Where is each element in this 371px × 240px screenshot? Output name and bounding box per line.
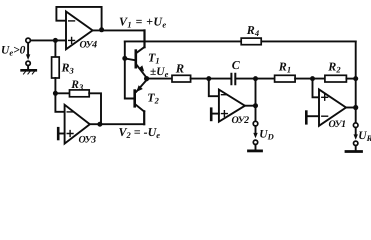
ground U2 plus input xyxy=(212,113,219,115)
wire R4 row xyxy=(125,40,356,42)
op-amp U2 minus pin xyxy=(222,94,228,96)
node R3h junction xyxy=(53,91,58,96)
svg-text:UR: UR xyxy=(358,130,371,143)
svg-text:R1: R1 xyxy=(278,59,291,74)
node R2 right xyxy=(353,76,358,81)
svg-text:R3: R3 xyxy=(61,61,75,76)
ground U3 plus input xyxy=(59,133,64,135)
op-amp U3 xyxy=(65,105,90,144)
op-amp U4 feedback wire xyxy=(56,7,101,30)
svg-text:Ue>0: Ue>0 xyxy=(1,45,26,58)
node U4 output xyxy=(99,27,104,32)
wire R3h to U3 output xyxy=(89,93,101,124)
wire U1 non-inverting input xyxy=(313,79,320,98)
wire right bus xyxy=(355,41,357,123)
resistor R3 vertical xyxy=(52,57,60,78)
svg-text:R: R xyxy=(175,62,184,76)
node base T1 xyxy=(122,56,127,61)
op-amp U1 xyxy=(319,89,346,125)
op-amp U4 minus pin xyxy=(69,20,75,22)
wire input to U4 xyxy=(30,39,66,41)
resistor R3 horizontal feedback xyxy=(55,92,69,94)
svg-text:R2: R2 xyxy=(327,59,341,74)
ground U1 minus input xyxy=(308,115,320,117)
transistor Q1 xyxy=(136,47,146,76)
resistor R1 xyxy=(275,75,296,82)
svg-text:±Ue: ±Ue xyxy=(150,66,169,79)
terminal input Ue xyxy=(26,38,31,43)
ground input xyxy=(27,66,29,70)
svg-text:ОУ3: ОУ3 xyxy=(79,135,97,146)
wire base bus from R4 xyxy=(125,41,134,98)
op-amp U2 xyxy=(219,90,245,122)
svg-text:V2 = -Ue: V2 = -Ue xyxy=(119,125,161,140)
node U3 output xyxy=(97,122,102,127)
resistor R2 xyxy=(325,75,347,82)
wire U1 output xyxy=(346,107,356,109)
node emitter Ue xyxy=(144,76,149,81)
wire U2 inverting input xyxy=(209,79,219,97)
node U2 output xyxy=(253,103,258,108)
resistor R xyxy=(172,75,191,82)
resistor R4 xyxy=(241,38,261,45)
terminal UR xyxy=(353,123,358,128)
svg-text:C: C xyxy=(232,58,241,72)
op-amp U3 plus pin xyxy=(67,131,73,137)
node U2 output top xyxy=(253,76,258,81)
wire U3 output V2 xyxy=(90,123,144,125)
op-amp U4 xyxy=(66,12,93,50)
op-amp U2 plus pin xyxy=(222,111,228,117)
ground UR xyxy=(355,146,357,151)
svg-text:T1: T1 xyxy=(148,51,160,66)
wire base T1 xyxy=(125,58,135,60)
node input junction xyxy=(53,38,58,43)
wire C to R1 xyxy=(236,78,275,80)
node U2 input xyxy=(206,76,211,81)
op-amp U1 plus pin xyxy=(322,94,328,100)
source lower circle xyxy=(26,61,30,65)
terminal UD xyxy=(253,121,258,126)
svg-text:ОУ4: ОУ4 xyxy=(80,40,98,51)
op-amp U1 minus pin xyxy=(322,115,328,117)
svg-text:T2: T2 xyxy=(147,91,159,106)
svg-text:ОУ2: ОУ2 xyxy=(232,115,250,126)
wire to R3 vertical xyxy=(54,43,56,58)
op-amp U3 minus pin xyxy=(67,111,73,113)
source arrow xyxy=(27,43,29,56)
node U1 output xyxy=(353,105,358,110)
wire U4 output V1 xyxy=(93,29,145,31)
wire R2 to right bus xyxy=(346,78,355,80)
capacitor C xyxy=(231,74,235,85)
op-amp U4 plus pin xyxy=(69,38,75,44)
wire U2 output xyxy=(245,105,256,107)
svg-text:UD: UD xyxy=(259,129,273,142)
svg-text:R3: R3 xyxy=(70,79,84,92)
wire R to C xyxy=(191,78,231,80)
ground UD xyxy=(255,145,257,150)
svg-text:ОУ1: ОУ1 xyxy=(329,119,346,130)
transistor Q2 xyxy=(135,80,147,112)
wire R1 to R2 xyxy=(295,78,325,80)
svg-text:V1 = +Ue: V1 = +Ue xyxy=(119,15,167,30)
wire main row xyxy=(147,78,172,80)
wire R3 to node xyxy=(54,78,56,93)
wire C feedback / UD drop xyxy=(255,79,257,122)
svg-text:R4: R4 xyxy=(246,23,259,38)
node U1 input xyxy=(310,76,315,81)
wire to U3 inverting input xyxy=(55,93,64,112)
